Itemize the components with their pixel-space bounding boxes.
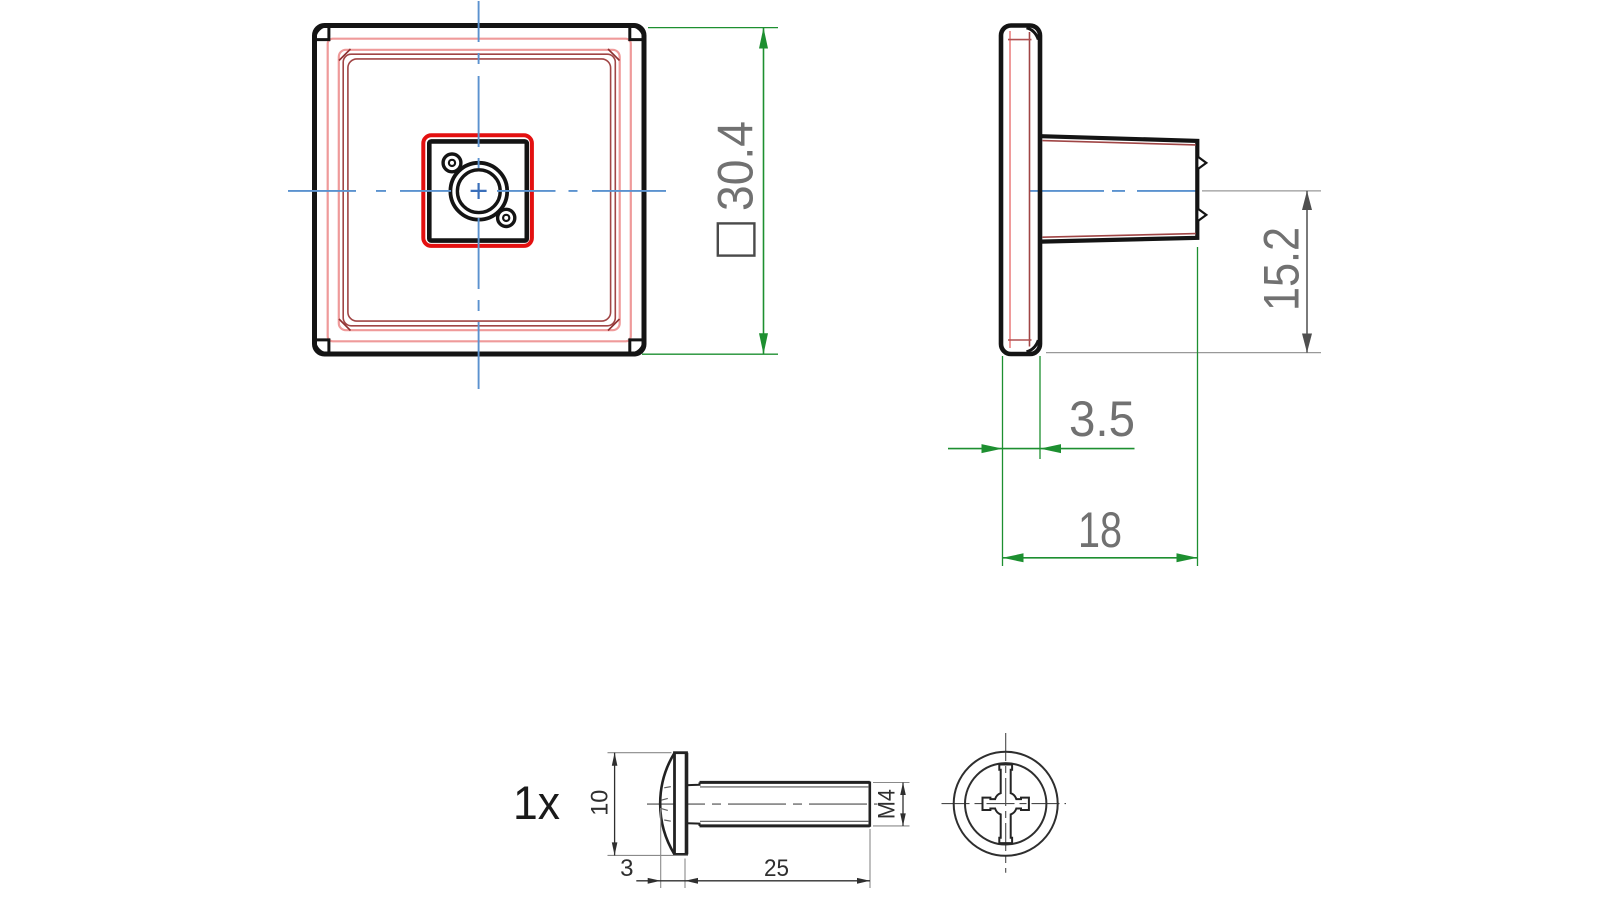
boss red line bottom [1043,234,1196,238]
black corner piece TR [630,25,645,40]
dim 25: extension at shaft end [869,829,871,888]
connector plate black outline [429,141,527,240]
blue centerline [1029,190,1199,192]
dark red face line [1029,32,1031,347]
extension line right [1197,247,1199,566]
dimension line [1306,191,1308,353]
thread minor line top [700,786,869,788]
red edge line top [1008,39,1032,41]
extension line left [1002,356,1004,566]
right outside arrow [1040,444,1061,453]
shaft bottom [700,824,870,827]
arrow up [759,28,768,49]
dim 10: extension bottom [608,854,689,856]
black corner piece TL [314,25,329,40]
shaft end [868,782,871,827]
svg-text:25: 25 [764,855,789,882]
flange right face thick [685,753,689,855]
red corner chamfer BL [339,319,351,331]
phillips cross recess [983,765,1029,844]
centerline vertical [1005,733,1007,873]
recess mark 4 [664,820,671,821]
dimension line [948,448,1135,450]
dim 3/25: extension at flange [684,859,686,889]
snap barb bottom [1197,208,1206,221]
dimension line [1003,557,1198,559]
extension line top [648,27,778,29]
dim M4: extension top [873,782,910,784]
svg-text:3.5: 3.5 [1069,391,1135,447]
blue vertical centerline [478,1,480,389]
recess mark 3 [661,809,668,811]
snap barb top [1197,156,1206,169]
svg-text:15.2: 15.2 [1254,227,1310,311]
extension line top [1202,190,1321,192]
boss red line top [1043,141,1196,145]
dim 25: arrows [685,878,698,884]
screw hole bottom-right [498,209,515,226]
arrow left [1003,553,1024,562]
black chamfer mark top [1027,28,1039,40]
arrow down [1302,334,1312,353]
dimension line [763,28,765,355]
dim 3: extension at apex [660,808,662,888]
red corner chamfer TR [608,49,620,61]
black corner piece BR [630,340,645,355]
dark red inset frame C [343,54,615,326]
extension line bottom [1046,352,1321,354]
arrow down [759,333,768,354]
connector outer circle [450,163,507,220]
neck top [687,782,700,785]
black chamfer mark bottom [1027,340,1039,352]
shaft top [700,781,870,784]
black corner piece BL [314,340,329,355]
dim M4: line [902,783,904,826]
dim 10: line [614,753,616,856]
svg-text:1x: 1x [513,776,560,829]
arrow up [1302,191,1312,210]
cap outer outline [315,26,645,355]
face plate outline [1001,26,1040,355]
neck bottom [687,823,700,826]
centerline [647,803,878,805]
head flange [675,753,687,855]
recess mark 1 [664,787,671,788]
pink face line [1009,31,1011,348]
center mark cross [471,183,487,199]
head dome arc [660,753,674,855]
left outside arrow [982,444,1003,453]
dim 3: tail + arrow [636,880,870,882]
thread minor line bottom [700,820,869,822]
dim M4: arrows [900,783,906,796]
recess mark 2 [661,798,668,800]
red corner chamfer BR [608,319,620,331]
dim 10: extension top [608,752,672,754]
pink inset frame B [339,50,620,330]
connector plate red outline [423,135,532,246]
svg-text:M4: M4 [874,789,901,819]
extension line right [1039,356,1041,459]
screw hole top-left [443,154,461,172]
blue horizontal centerline [288,190,666,192]
head outer circle [954,752,1058,856]
centerline horizontal [942,803,1067,805]
square symbol [718,223,755,255]
pink inset frame A [328,39,631,342]
dim M4: extension bottom [873,825,910,827]
dark red inset frame D [348,59,611,321]
boss outline [1041,136,1198,241]
extension line bottom [642,353,778,355]
svg-text:3: 3 [620,855,633,882]
connector inner circle [457,170,500,213]
svg-text:18: 18 [1078,502,1122,558]
svg-text:30.4: 30.4 [708,121,764,211]
red corner chamfer TL [339,49,351,61]
head inner circle [965,763,1046,844]
dim 10: arrows [612,753,618,766]
svg-text:10: 10 [587,790,614,816]
red edge line bottom [1008,339,1032,341]
arrow right [1177,553,1198,562]
